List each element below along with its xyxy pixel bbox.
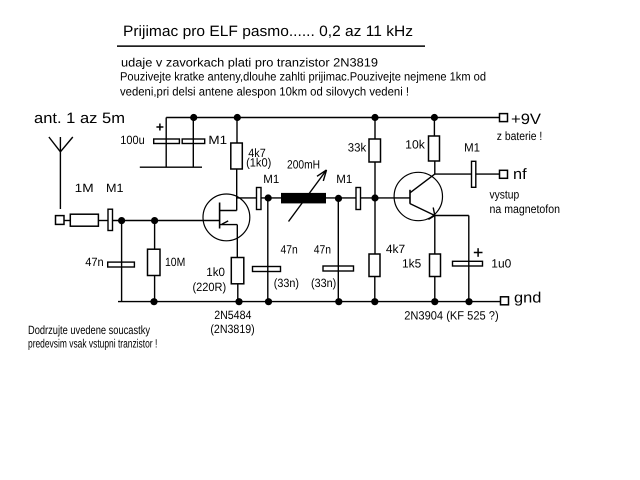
resistor 10M: [148, 249, 161, 275]
wire drain column: [236, 169, 238, 211]
wire 1k0 bottom: [237, 284, 239, 302]
svg-text:100u: 100u: [120, 133, 144, 147]
svg-text:1k0: 1k0: [206, 265, 225, 279]
resistor 4k7 divider: [369, 254, 380, 277]
wire antenna lead: [59, 152, 61, 209]
node bottom junction 1k5: [431, 298, 438, 305]
svg-text:1k5: 1k5: [402, 257, 422, 271]
resistor 4k7 drain: [231, 143, 243, 169]
svg-text:10k: 10k: [405, 138, 426, 152]
capacitor M1 top: [182, 139, 205, 144]
svg-text:M1: M1: [208, 133, 227, 147]
wire 4k7 drain column top: [236, 118, 238, 144]
wire collector row to cap: [435, 173, 472, 175]
inductor 200mH: [281, 193, 326, 204]
capacitor 1u0 plus sign: [474, 248, 483, 257]
transistor Q1 drain contact: [220, 210, 237, 212]
resistor 1k5: [430, 254, 441, 277]
wire gate row: [113, 220, 220, 222]
svg-text:10M: 10M: [165, 255, 185, 269]
svg-text:47n: 47n: [85, 255, 104, 269]
inductor tuning arrow: [289, 170, 327, 222]
capacitor M1 interstage: [356, 188, 361, 210]
svg-text:Dodrzujte uvedene soucastky: Dodrzujte uvedene soucastky: [28, 323, 150, 337]
wire M1 cap 2 to base: [361, 197, 411, 199]
transistor Q2 emitter lead: [410, 204, 435, 216]
transistor Q1 gate arrow: [222, 221, 228, 224]
wire collector column: [434, 161, 436, 174]
svg-text:M1: M1: [263, 172, 279, 186]
svg-text:gnd: gnd: [514, 290, 541, 307]
svg-text:nf: nf: [513, 166, 527, 183]
wire M1 top column: [192, 118, 194, 168]
wire divider node column: [374, 162, 376, 254]
svg-text:(1k0): (1k0): [246, 156, 271, 170]
svg-text:33k: 33k: [348, 141, 367, 155]
capacitor 1u0: [453, 261, 483, 266]
capacitor 100u plus sign: [156, 124, 163, 131]
node bottom junction 10M: [150, 298, 157, 305]
svg-text:predevsim vsak vstupni tranzis: predevsim vsak vstupni tranzistor !: [28, 337, 157, 351]
node gate junction 2: [151, 217, 158, 224]
svg-text:(220R): (220R): [193, 280, 227, 294]
node signal junction 1: [265, 194, 272, 201]
wire capacitor bottom bus: [140, 166, 202, 168]
svg-text:(33n): (33n): [311, 276, 336, 290]
node gate junction 1: [118, 217, 125, 224]
capacitor 100u: [154, 139, 180, 144]
wire drain to M1 cap: [237, 197, 257, 199]
svg-text:ant. 1 az 5m: ant. 1 az 5m: [34, 110, 125, 127]
wire emitter column: [434, 216, 436, 255]
node signal junction 2: [335, 195, 342, 202]
transistor Q1 source contact: [220, 224, 238, 226]
wire 33k column top: [374, 118, 376, 140]
svg-text:Pouzivejte kratke anteny,dlouh: Pouzivejte kratke anteny,dlouhe zahlti p…: [120, 70, 486, 84]
transistor Q2 emitter arrowhead: [428, 208, 434, 220]
capacitor M1 input: [108, 209, 113, 230]
wire 10M column top: [154, 221, 156, 250]
svg-text:M1: M1: [106, 181, 124, 195]
wire 10k column top: [433, 118, 435, 137]
node bottom junction 47n1: [265, 298, 272, 305]
capacitor M1 drain coupling: [257, 188, 262, 210]
wire 4k7 divider bottom: [374, 277, 376, 302]
wire 1u0 column: [468, 216, 470, 302]
wire 1k5 bottom: [434, 277, 436, 302]
svg-text:+9V: +9V: [511, 111, 541, 128]
node top rail junction M1: [190, 114, 197, 121]
node base divider junction: [371, 194, 378, 201]
wire 100u column: [165, 118, 167, 168]
transistor Q1 channel bar: [219, 203, 221, 229]
wire square to R 1M: [64, 220, 70, 222]
svg-text:4k7: 4k7: [386, 242, 406, 256]
wire 10M column bottom: [154, 276, 156, 302]
terminal +9V square: [500, 114, 508, 122]
svg-text:Prijimac pro ELF pasmo...... 0: Prijimac pro ELF pasmo...... 0,2 az 11 k…: [123, 23, 413, 40]
wire 47n no2 column: [337, 198, 339, 302]
resistor 1M: [70, 214, 98, 226]
transistor Q1 2N5484 circle: [203, 194, 250, 241]
svg-text:47n: 47n: [281, 243, 298, 257]
svg-text:(33n): (33n): [274, 276, 299, 290]
terminal nf square: [500, 170, 508, 178]
transistor Q2 base bar: [409, 190, 411, 204]
title underline: [117, 45, 425, 47]
wire M1 cap to inductor: [261, 197, 281, 199]
svg-text:(2N3819): (2N3819): [210, 322, 254, 336]
wire FET source column: [236, 225, 238, 258]
node top rail junction 10k: [431, 114, 438, 121]
wire inductor to M1 cap 2: [326, 197, 356, 199]
svg-text:z baterie !: z baterie !: [497, 129, 543, 143]
wire cap to nf terminal: [476, 173, 500, 175]
antenna terminal square: [56, 216, 65, 225]
wire 47n input column: [121, 221, 123, 302]
node bottom junction 1u0: [465, 298, 472, 305]
capacitor 47n no1: [253, 267, 281, 272]
svg-text:2N5484: 2N5484: [214, 308, 251, 322]
svg-text:2N3904 (KF 525 ?): 2N3904 (KF 525 ?): [404, 309, 499, 323]
svg-text:200mH: 200mH: [287, 158, 320, 172]
node bottom junction 1k0: [235, 298, 242, 305]
resistor 10k: [429, 136, 440, 161]
wire top rail: [166, 117, 499, 119]
svg-text:udaje v zavorkach plati pro tr: udaje v zavorkach plati pro tranzistor 2…: [121, 56, 378, 70]
wire bottom rail: [118, 301, 501, 303]
resistor 33k: [369, 139, 381, 162]
terminal gnd square: [501, 297, 509, 305]
svg-text:vystup: vystup: [490, 188, 520, 202]
resistor 1k0: [231, 258, 244, 284]
svg-text:M1: M1: [336, 172, 352, 186]
transistor Q2 collector lead: [410, 174, 435, 193]
svg-text:1M: 1M: [75, 181, 94, 195]
node top rail junction 4k7: [234, 114, 241, 121]
svg-text:1u0: 1u0: [491, 257, 511, 271]
capacitor M1 output: [472, 161, 476, 187]
svg-text:47n: 47n: [314, 243, 331, 257]
node top rail junction 33k: [371, 114, 378, 121]
wire 47n no1 column: [267, 198, 269, 302]
wire 1M to C M1 input: [98, 220, 108, 222]
node bottom junction 47n2: [335, 298, 342, 305]
node bottom junction 4k7: [371, 298, 378, 305]
capacitor 47n no2: [323, 266, 354, 271]
capacitor 47n input: [108, 262, 135, 267]
svg-text:M1: M1: [464, 141, 480, 155]
transistor Q2 2N3904 circle: [394, 172, 442, 220]
wire emitter row: [435, 215, 469, 217]
svg-text:na magnetofon: na magnetofon: [490, 202, 561, 216]
antenna ANT symbol: [49, 137, 73, 152]
svg-text:vedeni,pri delsi antene alespo: vedeni,pri delsi antene alespon 10km od …: [120, 85, 409, 99]
